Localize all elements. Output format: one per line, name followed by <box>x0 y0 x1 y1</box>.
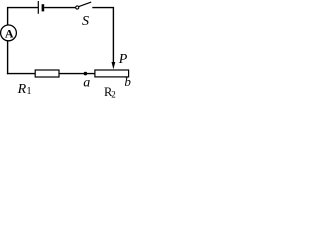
node a junction dot <box>84 72 88 76</box>
svg-text:2: 2 <box>111 90 116 100</box>
wire left vertical from corner to ammeter <box>7 7 9 25</box>
wiper arrowhead P <box>112 62 116 69</box>
wire R1 to R2 <box>59 73 95 75</box>
switch S <box>76 2 92 9</box>
svg-text:R: R <box>17 82 27 97</box>
wire battery to switch <box>44 7 75 9</box>
svg-text:a: a <box>83 76 90 91</box>
wire ammeter to bottom-left corner <box>7 41 9 74</box>
svg-text:S: S <box>82 14 89 29</box>
wire right vertical down to wiper <box>112 7 114 62</box>
svg-text:b: b <box>124 74 131 89</box>
svg-text:P: P <box>118 52 128 67</box>
rheostat R2 body <box>95 70 129 77</box>
svg-text:1: 1 <box>27 86 32 97</box>
svg-text:A: A <box>5 27 14 41</box>
wire bottom-left to R1 <box>7 73 35 75</box>
battery <box>38 1 43 14</box>
wire top-left horizontal to battery <box>8 7 38 9</box>
ammeter A1 circle <box>1 25 17 41</box>
resistor R1 body <box>35 70 59 77</box>
wire switch to top-right corner <box>92 7 113 9</box>
